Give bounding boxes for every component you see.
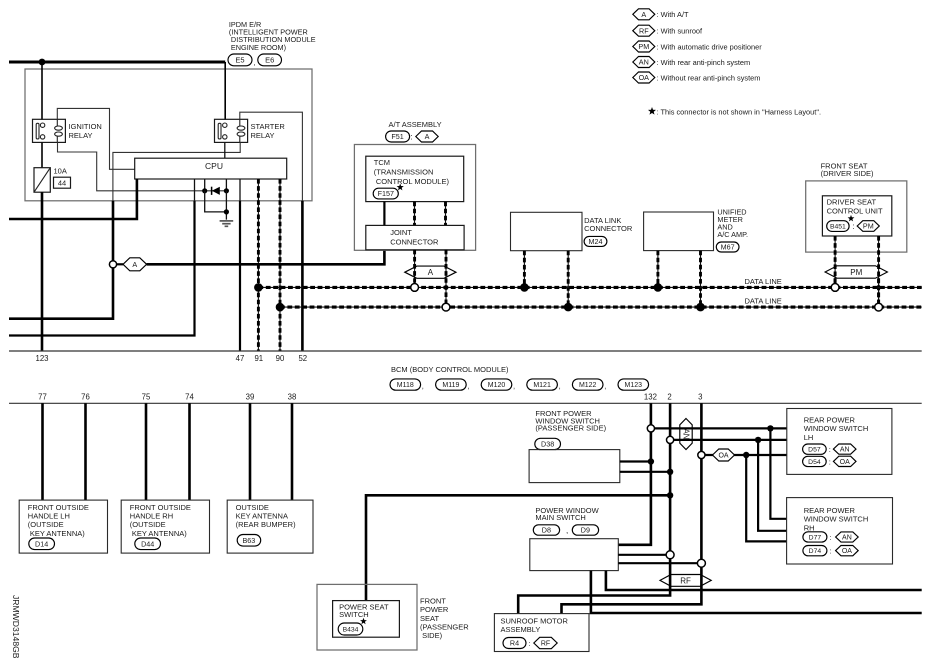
connector E6 (258, 54, 282, 66)
driver seat circle on data line 2 (875, 303, 883, 311)
option connector A (IPDM branch) (123, 258, 147, 271)
wire CPU to BCM pin 52 (301, 201, 304, 351)
connector B434 (338, 623, 363, 635)
svg-text::: : (411, 133, 413, 142)
circle pin132 branch (647, 425, 654, 432)
svg-text:B63: B63 (243, 536, 256, 545)
CAN wire TCM to joint connector (mid) (414, 202, 416, 226)
svg-text:IGNITION: IGNITION (69, 122, 102, 131)
svg-text:MAIN SWITCH: MAIN SWITCH (535, 513, 585, 522)
svg-text:D9: D9 (581, 526, 590, 535)
wire power seat switch to pin 2 branch (366, 495, 670, 600)
wire ignition relay coil to CPU (57, 108, 134, 169)
junction branch RH 3 (743, 452, 749, 458)
svg-text:AN: AN (682, 429, 691, 440)
svg-text:SWITCH: SWITCH (339, 610, 369, 619)
svg-text:,: , (604, 381, 606, 390)
svg-text:AN: AN (842, 535, 852, 542)
connector D8 (533, 525, 559, 535)
svg-text:(DRIVER SIDE): (DRIVER SIDE) (821, 169, 874, 178)
svg-text:39: 39 (246, 393, 255, 402)
connector D44 (135, 538, 161, 550)
REAR POWER WINDOW SWITCH RH box (787, 498, 893, 564)
svg-text:75: 75 (142, 393, 151, 402)
legend option marker RF (633, 25, 655, 36)
svg-text:RF: RF (541, 641, 550, 648)
svg-text:CONTROL MODULE): CONTROL MODULE) (374, 177, 450, 186)
wire top bus to ignition relay contact (41, 62, 43, 120)
svg-text:D38: D38 (541, 440, 554, 449)
CAN wire meter to data line 2 (700, 251, 702, 305)
svg-text:123: 123 (35, 354, 48, 363)
svg-text:DATA LINE: DATA LINE (745, 297, 782, 306)
joint connector circle on data line 2 (442, 303, 450, 311)
connector D57 (803, 444, 827, 454)
connector M122 (572, 379, 603, 390)
svg-text:BCM (BODY CONTROL MODULE): BCM (BODY CONTROL MODULE) (391, 365, 509, 374)
svg-text:B451: B451 (830, 224, 846, 231)
diode junction right (224, 188, 229, 193)
meter junction on data line 1 (654, 283, 663, 292)
wire D38 to pin 132 (620, 460, 651, 462)
svg-text::: : (829, 445, 831, 454)
svg-text:OA: OA (639, 73, 650, 82)
CAN wire meter to data line 1 (657, 251, 659, 285)
svg-text:38: 38 (288, 393, 297, 402)
svg-text:AN: AN (840, 447, 850, 454)
FRONT OUTSIDE HANDLE LH box (19, 500, 107, 553)
svg-text:PM: PM (850, 268, 862, 277)
wire BCM pin 39 to rear antenna (249, 403, 252, 500)
svg-text::: : (829, 457, 831, 466)
joint connector circle on data line 1 (411, 284, 419, 292)
junction pin90 to data line 2 (276, 303, 285, 312)
connector R4 (503, 638, 526, 649)
wire BCM pin 132 to main switch (618, 403, 651, 545)
CAN wire joint connector to data line 1 (414, 250, 416, 285)
svg-text:E6: E6 (265, 56, 274, 65)
svg-text:M122: M122 (579, 382, 597, 389)
svg-text:M24: M24 (589, 237, 603, 246)
connector F157 (373, 188, 398, 199)
legend option marker A (633, 9, 655, 20)
svg-text:STARTER: STARTER (251, 122, 286, 131)
wire ignition relay coil low side to diode (58, 142, 227, 190)
option connector OA (713, 449, 735, 461)
front seat outer box (806, 181, 907, 252)
svg-text:2: 2 (667, 393, 671, 402)
star at F157 (397, 184, 404, 191)
svg-text:44: 44 (58, 179, 66, 188)
wire top bus corner to starter relay contact (224, 62, 226, 120)
svg-text:WINDOW SWITCH: WINDOW SWITCH (804, 515, 869, 524)
svg-text:PM: PM (638, 42, 649, 51)
svg-text:M123: M123 (625, 382, 643, 389)
junction pin91 to data line 1 (254, 283, 263, 292)
legend option marker PM (633, 41, 655, 52)
UNIFIED METER AND A/C AMP box (644, 212, 714, 251)
connector M119 (436, 379, 467, 390)
connector D14 (29, 538, 55, 550)
node A branch circle (109, 261, 116, 268)
svg-text:: Without rear anti-pinch syst: : Without rear anti-pinch system (657, 73, 761, 82)
svg-text:,: , (467, 381, 469, 390)
connector D54 (803, 456, 827, 466)
CPU pin wires to diode (195, 179, 241, 201)
option marker A at F51 (416, 131, 438, 142)
legend option marker AN (633, 57, 655, 68)
svg-text:,: , (513, 381, 515, 390)
svg-text:OA: OA (718, 453, 728, 460)
connector D38 (535, 438, 561, 449)
svg-text:M118: M118 (397, 382, 414, 389)
svg-text:KEY ANTENNA): KEY ANTENNA) (28, 529, 85, 538)
unified meter label (717, 208, 748, 239)
svg-text:WINDOW SWITCH: WINDOW SWITCH (804, 424, 869, 433)
circle pin3 branch (698, 451, 705, 458)
wire CPU to BCM pin 47 (239, 201, 241, 351)
svg-text:CPU: CPU (205, 161, 223, 171)
meter junction on data line 2 (696, 303, 705, 312)
svg-text:M67: M67 (721, 243, 735, 252)
power window main switch label (535, 506, 599, 522)
star at B434 (360, 618, 367, 625)
connector D77 (803, 532, 827, 542)
option connector PM (wide) (825, 266, 887, 278)
handle LH label (28, 503, 89, 538)
wire branch pin132 to rear switch LH (651, 427, 787, 429)
power seat outer box FRONT POWER SEAT (317, 584, 417, 650)
svg-text:A/T ASSEMBLY: A/T ASSEMBLY (389, 120, 442, 129)
svg-text:REAR POWER: REAR POWER (804, 506, 856, 515)
option connector AN (vertical) (680, 419, 692, 450)
svg-text:E5: E5 (235, 56, 244, 65)
wire option A to joint connector (147, 250, 385, 264)
junction branch RH 1 (767, 425, 773, 431)
wire BCM pin 3 to sunroof motor (562, 403, 702, 613)
front power seat label (420, 597, 469, 640)
svg-text:91: 91 (254, 354, 263, 363)
wire diode to ground (205, 191, 227, 220)
svg-text:ASSEMBLY: ASSEMBLY (501, 625, 541, 634)
circle main switch pin2 (666, 551, 674, 559)
wire BCM pin 2 to sunroof motor (518, 403, 670, 613)
POWER SEAT SWITCH box (333, 601, 400, 638)
option connector RF (wide) (660, 575, 711, 587)
starter relay label (251, 122, 286, 140)
svg-text:D74: D74 (809, 548, 822, 555)
svg-text:: With sunroof: : With sunroof (657, 27, 704, 36)
rear switch RH label (804, 506, 869, 532)
wire fuse to BCM pin 123 (41, 192, 44, 351)
ignition relay label (69, 122, 102, 140)
svg-text:B434: B434 (343, 626, 359, 633)
svg-text:,: , (254, 58, 256, 67)
fuse number box 44 (54, 177, 71, 188)
svg-text:RH: RH (804, 523, 815, 532)
OUTSIDE KEY ANTENNA box (227, 500, 313, 553)
svg-text:,: , (559, 381, 561, 390)
wire branch pin3 to rear switch LH (701, 454, 786, 456)
svg-text:CONTROL UNIT: CONTROL UNIT (827, 207, 883, 216)
CAN wire driver seat to data line 1 (834, 236, 836, 285)
CPU box (135, 158, 287, 179)
connector M67 (716, 242, 739, 252)
svg-text:CONNECTOR: CONNECTOR (584, 224, 633, 233)
CAN wire CPU to BCM pin 90 (279, 179, 281, 351)
svg-text::: : (829, 547, 831, 556)
svg-text:76: 76 (81, 393, 90, 402)
svg-text:(TRANSMISSION: (TRANSMISSION (374, 168, 434, 177)
CAN wire driver seat to data line 2 (878, 236, 880, 305)
ground junction (224, 209, 229, 214)
svg-text:3: 3 (698, 393, 702, 402)
driver seat circle on data line 1 (831, 284, 839, 292)
wire CPU pin to left (exit at 194.5) (9, 201, 195, 336)
wire main switch to pin 2 branch (618, 554, 670, 556)
CAN wire joint connector to data line 2 (445, 250, 447, 305)
svg-text:74: 74 (185, 393, 194, 402)
starter relay STARTER RELAY (215, 119, 248, 142)
CAN stub PM to data line (834, 278, 836, 285)
svg-text:RELAY: RELAY (69, 131, 93, 140)
svg-text::: : (529, 639, 531, 648)
diode (212, 187, 220, 195)
svg-text:A: A (132, 260, 137, 269)
data line 1 (258, 286, 921, 288)
svg-text:A: A (425, 132, 430, 141)
wire branch to rear switch RH (3) (746, 455, 786, 541)
front power window switch label (535, 409, 606, 433)
junction on top bus (39, 59, 46, 66)
svg-text:A: A (428, 268, 434, 277)
rear antenna label (236, 503, 297, 529)
connector B451 (827, 221, 849, 232)
svg-text:D57: D57 (808, 447, 821, 454)
option marker PM at B451 (857, 221, 879, 232)
SUNROOF MOTOR ASSEMBLY box (494, 614, 589, 652)
sunroof motor label (501, 617, 569, 635)
wire main switch output right (lower) (591, 571, 922, 613)
connector M24 (584, 236, 607, 246)
wire starter relay contact to CPU (224, 142, 226, 158)
legend option marker OA (633, 72, 655, 83)
wire CPU to left bus (exit at 136.9) (9, 179, 137, 219)
option marker RF at R4 (534, 637, 557, 648)
svg-text:47: 47 (236, 354, 245, 363)
svg-text:DRIVER SEAT: DRIVER SEAT (827, 198, 877, 207)
connector B63 (237, 535, 261, 547)
option marker AN at D77 (836, 532, 859, 542)
IPDM E/R label (229, 20, 316, 52)
connector E5 (228, 54, 252, 66)
connector D9 (572, 525, 598, 535)
BCM lower pin rail (9, 402, 922, 404)
svg-text:D77: D77 (809, 534, 822, 541)
DRIVER SEAT CONTROL UNIT box (822, 196, 891, 236)
svg-text:: With automatic drive positio: : With automatic drive positioner (657, 42, 763, 51)
wire main switch to pin 3 branch (618, 562, 701, 564)
wire BCM pin 74 to handle RH (188, 403, 191, 500)
option marker OA at D54 (833, 456, 856, 466)
option marker OA at D74 (836, 546, 859, 556)
svg-text:LH: LH (804, 433, 814, 442)
DLC junction on data line 1 (520, 283, 529, 292)
wire BCM pin 76 to handle LH (84, 403, 87, 500)
battery power wire (top bus) (9, 61, 225, 64)
svg-text:132: 132 (644, 393, 657, 402)
power seat switch label (339, 603, 389, 619)
wire ignition relay contact to fuse (41, 142, 43, 167)
svg-text:(REAR BUMPER): (REAR BUMPER) (236, 520, 297, 529)
svg-text:,: , (566, 526, 568, 535)
option connector A (wide) (405, 266, 456, 278)
BCM upper pin rail (9, 350, 922, 352)
wire D38 to pin 2 (620, 471, 670, 473)
wire starter relay coil low side to A option branch (113, 142, 240, 200)
circle pin2 branch (667, 436, 674, 443)
IPDM E/R box (25, 69, 312, 201)
svg-text:(PASSENGER SIDE): (PASSENGER SIDE) (535, 424, 606, 433)
CAN wire DLC to data line 1 (523, 251, 525, 285)
svg-text:F157: F157 (378, 189, 394, 198)
CAN wire TCM to joint connector (right) (445, 202, 447, 226)
svg-text:10A: 10A (54, 167, 67, 176)
fuse 10A 44 (34, 168, 50, 193)
wire branch to rear switch RH (2) (758, 440, 787, 531)
wire BCM pin 75 to handle RH (145, 403, 148, 500)
A/T assembly box (354, 145, 475, 251)
connector M120 (481, 379, 512, 390)
svg-text:D44: D44 (141, 539, 154, 548)
TCM label (374, 158, 450, 186)
junction D38 pin132 (648, 458, 654, 464)
svg-text:DATA LINE: DATA LINE (745, 277, 782, 286)
connector M118 (390, 379, 421, 390)
svg-text:: With A/T: : With A/T (657, 10, 690, 19)
svg-text:F51: F51 (391, 132, 403, 141)
svg-text:A: A (641, 10, 646, 19)
svg-text:JOINT: JOINT (390, 228, 412, 237)
wire BCM pin 77 to handle LH (41, 403, 44, 500)
svg-text:OA: OA (842, 548, 852, 555)
junction D38 pin2 (667, 469, 673, 475)
option marker AN at D57 (833, 444, 856, 454)
svg-text:PM: PM (863, 222, 874, 231)
star at B451 (848, 215, 855, 222)
svg-text:D8: D8 (542, 526, 551, 535)
svg-text:AN: AN (639, 58, 649, 67)
svg-text:KEY ANTENNA): KEY ANTENNA) (130, 529, 187, 538)
CAN wire CPU to BCM pin 91 (257, 179, 259, 351)
JOINT CONNECTOR label (390, 228, 439, 246)
FRONT SEAT label (821, 161, 874, 178)
wire starter relay coil to pin 52 (inside IPDM) (240, 112, 303, 201)
circle main switch pin3 (697, 559, 705, 567)
CAN wire DLC to data line 2 (567, 251, 569, 305)
svg-text:M119: M119 (442, 382, 459, 389)
rear switch LH label (804, 416, 869, 442)
svg-text:M121: M121 (533, 382, 551, 389)
svg-text:CONNECTOR: CONNECTOR (390, 238, 439, 247)
TCM box (366, 156, 464, 201)
svg-text:D14: D14 (35, 539, 48, 548)
wire starter relay branch to left bus and option A (9, 201, 113, 319)
svg-text:D54: D54 (808, 459, 821, 466)
wire BCM pin 38 to rear antenna (291, 403, 294, 500)
svg-text:R4: R4 (510, 639, 519, 648)
svg-text:: With rear anti-pinch system: : With rear anti-pinch system (657, 58, 751, 67)
connector M123 (618, 379, 649, 390)
svg-text:REAR POWER: REAR POWER (804, 416, 856, 425)
diode junction left (202, 188, 207, 193)
svg-text:90: 90 (276, 354, 285, 363)
svg-text:RELAY: RELAY (251, 131, 275, 140)
driver seat control unit label (827, 198, 883, 216)
connector F51 (386, 131, 410, 142)
REAR POWER WINDOW SWITCH LH box (787, 409, 892, 475)
svg-text:OA: OA (840, 459, 850, 466)
DATA LINK CONNECTOR box (511, 212, 583, 250)
junction branch RH 2 (755, 437, 761, 443)
ignition relay IGNITION RELAY (33, 119, 66, 142)
svg-text::: : (852, 222, 854, 231)
connector M121 (527, 379, 558, 390)
svg-text:M120: M120 (488, 382, 506, 389)
wire circle to option connector A (117, 263, 123, 265)
DATA LINK CONNECTOR label (584, 216, 633, 233)
connector D74 (803, 546, 827, 556)
data line 2 (280, 306, 922, 308)
svg-text:TCM: TCM (374, 158, 390, 167)
svg-text:JRMWD3148GB: JRMWD3148GB (11, 595, 21, 659)
svg-text:RF: RF (639, 26, 649, 35)
svg-text:A/C AMP.: A/C AMP. (717, 230, 748, 239)
wire TCM to joint connector (left) (383, 202, 385, 226)
FRONT OUTSIDE HANDLE RH box (121, 500, 209, 553)
handle RH label (130, 503, 191, 538)
svg-text:,: , (422, 381, 424, 390)
svg-text:RF: RF (680, 576, 691, 585)
svg-text:SIDE): SIDE) (420, 631, 443, 640)
wire main switch output right (upper) (606, 571, 922, 590)
svg-text:52: 52 (298, 354, 307, 363)
wire branch pin2 to rear switch LH (670, 439, 787, 441)
svg-text:: This connector is not shown: : This connector is not shown in "Harnes… (657, 107, 822, 116)
junction power seat pin2 (667, 492, 673, 498)
svg-text::: : (829, 533, 831, 542)
JOINT CONNECTOR box (366, 225, 464, 249)
svg-text:ENGINE ROOM): ENGINE ROOM) (229, 43, 286, 52)
wire branch to rear switch RH (1) (770, 428, 786, 518)
POWER WINDOW MAIN SWITCH box (530, 539, 619, 571)
FRONT POWER WINDOW SWITCH box (529, 450, 620, 483)
svg-text:77: 77 (38, 393, 47, 402)
DLC junction on data line 2 (564, 303, 573, 312)
star footnote (648, 107, 656, 115)
ground (220, 221, 234, 226)
